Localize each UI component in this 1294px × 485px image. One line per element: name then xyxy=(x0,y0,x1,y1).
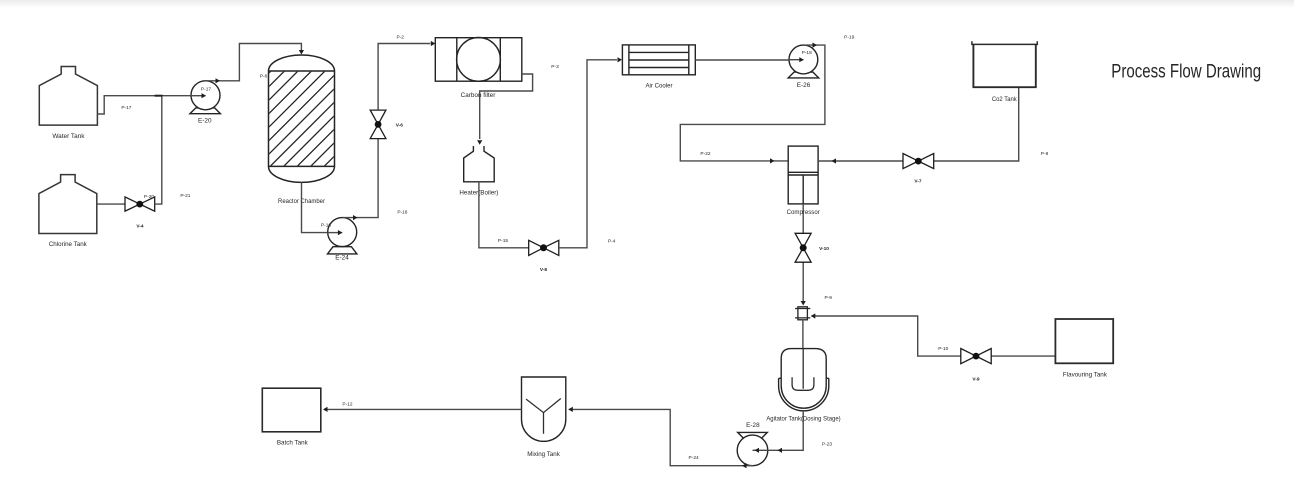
pump E-26 xyxy=(788,45,819,78)
svg-text:P-23: P-23 xyxy=(822,442,832,448)
batch tank xyxy=(262,388,321,432)
svg-text:P-19: P-19 xyxy=(844,35,854,41)
svg-text:V-4: V-4 xyxy=(136,224,144,230)
svg-text:P-20: P-20 xyxy=(144,194,154,200)
svg-text:P-16: P-16 xyxy=(321,223,331,229)
wire valve V-8 to air cooler xyxy=(559,60,617,248)
svg-text:Mixing Tank: Mixing Tank xyxy=(527,451,560,458)
pump E-20 xyxy=(190,81,221,114)
heater (boiler) xyxy=(464,146,495,182)
valve V-9 xyxy=(961,349,991,364)
svg-text:V-6: V-6 xyxy=(396,122,404,128)
svg-text:P-6: P-6 xyxy=(260,74,268,80)
svg-text:E-24: E-24 xyxy=(335,255,349,262)
svg-text:E-20: E-20 xyxy=(198,118,212,125)
mixing tank xyxy=(522,377,566,441)
svg-text:V-9: V-9 xyxy=(972,377,980,383)
svg-text:P-10: P-10 xyxy=(938,346,948,352)
wire chlorine tank to valve V-4 xyxy=(97,203,125,205)
svg-text:P-3: P-3 xyxy=(551,64,559,70)
wire E-26 outlet to compressor (P-19 / P-22) xyxy=(680,45,825,161)
wire mixing tank to batch tank xyxy=(325,408,522,410)
wire inlet into pump E-24 xyxy=(328,232,343,234)
inline fitting (junction) xyxy=(795,307,810,320)
wire fitting to agitator tank xyxy=(802,320,804,349)
wire E-28 outlet to mixing tank xyxy=(569,409,753,465)
carbon filter xyxy=(435,38,522,82)
svg-text:Process Flow Drawing: Process Flow Drawing xyxy=(1111,61,1261,83)
svg-text:Water Tank: Water Tank xyxy=(52,133,85,140)
valve V-4 xyxy=(125,197,155,211)
valve V-8 xyxy=(529,240,559,255)
chlorine tank xyxy=(39,175,97,234)
air cooler xyxy=(622,45,695,75)
svg-text:Carbon filter: Carbon filter xyxy=(461,92,496,99)
pump E-24 xyxy=(328,218,357,254)
svg-text:P-24: P-24 xyxy=(689,455,699,461)
svg-text:P-12: P-12 xyxy=(342,402,352,408)
svg-text:Chlorine Tank: Chlorine Tank xyxy=(49,241,88,248)
valve V-10 xyxy=(795,233,811,262)
wire heater outlet to valve V-8 xyxy=(479,182,529,248)
svg-text:P-9: P-9 xyxy=(824,295,832,301)
reactor chamber R1 xyxy=(269,55,335,182)
svg-text:P-21: P-21 xyxy=(180,193,190,199)
flavouring tank xyxy=(1055,319,1113,363)
wire carbon filter outlet to heater xyxy=(480,74,533,139)
co2 tank xyxy=(972,41,1037,87)
reactor hatch xyxy=(175,71,420,167)
valve V-7 xyxy=(903,154,934,169)
svg-text:P-8: P-8 xyxy=(1041,151,1049,157)
svg-text:V-8: V-8 xyxy=(540,267,548,273)
svg-text:P-17: P-17 xyxy=(201,87,211,93)
pump E-28 xyxy=(737,432,768,465)
svg-text:P-17: P-17 xyxy=(121,105,131,111)
svg-text:Air Cooler: Air Cooler xyxy=(646,83,674,90)
svg-text:Flavouring Tank: Flavouring Tank xyxy=(1063,372,1108,379)
wire inlet into pump E-20 xyxy=(190,95,206,97)
svg-text:P-2: P-2 xyxy=(396,35,404,41)
wire inlet into pump E-26 xyxy=(789,59,804,61)
water tank xyxy=(39,67,97,126)
wire reactor outlet to pump E-24 xyxy=(302,182,343,232)
wire air cooler to pump E-26 xyxy=(695,59,803,61)
agitator shaft and impeller xyxy=(792,349,814,391)
svg-text:P-18: P-18 xyxy=(802,50,812,56)
svg-text:E-26: E-26 xyxy=(797,82,811,89)
svg-text:Batch Tank: Batch Tank xyxy=(277,440,308,447)
svg-text:P-15: P-15 xyxy=(498,238,508,244)
wire flavouring tank to valve V-9 to fitting xyxy=(812,316,1056,356)
wire E-24 outlet to valve V-6 and carbon filter xyxy=(342,44,430,218)
agitator tank (dosing stage) xyxy=(779,349,829,411)
svg-text:V-7: V-7 xyxy=(914,179,922,185)
compressor xyxy=(788,146,818,204)
mixing tank agitator xyxy=(526,399,561,434)
svg-text:V-10: V-10 xyxy=(819,246,829,252)
wire co2 tank to valve V-7 to compressor xyxy=(818,87,1019,161)
valve V-6 xyxy=(370,110,386,139)
wire P-21 valve V-4 to junction with P-17 xyxy=(155,96,162,204)
svg-text:E-28: E-28 xyxy=(746,422,760,429)
svg-text:P-4: P-4 xyxy=(608,239,616,245)
wire inlet into pump E-28 xyxy=(753,449,769,451)
svg-text:Co2 Tank: Co2 Tank xyxy=(992,96,1017,103)
wire E-20 outlet to reactor chamber xyxy=(206,44,302,81)
svg-text:P-16: P-16 xyxy=(397,210,407,216)
svg-text:P-22: P-22 xyxy=(700,151,710,157)
wire compressor outlet through valve V-10 xyxy=(802,204,804,303)
wire agitator tank outlet to pump E-28 xyxy=(753,411,804,451)
wire P-17 from water tank to pump E-20 xyxy=(97,96,205,114)
